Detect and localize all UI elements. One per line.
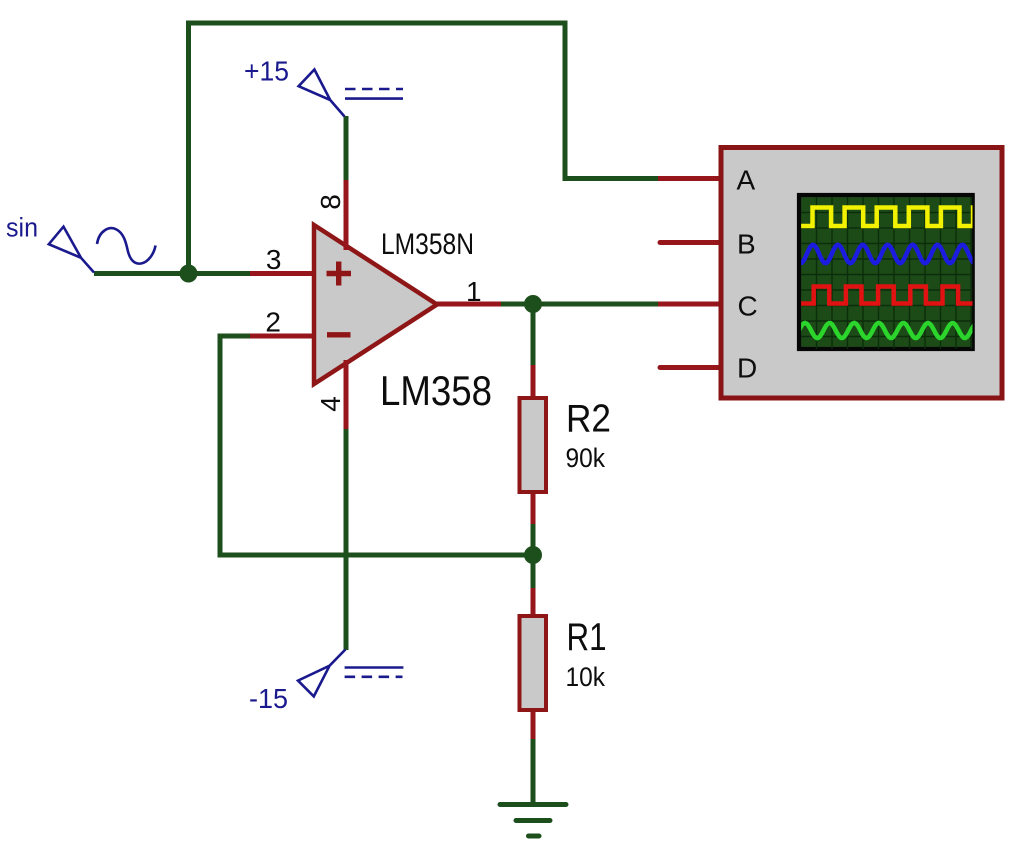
-15 rail solid line (345, 666, 404, 669)
resistor R2 body (520, 398, 547, 492)
op-amp plus input marker (327, 262, 352, 286)
svg-text:R2: R2 (566, 398, 611, 441)
wire: R2-R1 junction segment (531, 524, 536, 588)
op-amp minus input marker (327, 332, 351, 337)
pin 3 of U1 (red pin stub) (250, 271, 315, 276)
oscilloscope body (721, 148, 1002, 399)
wire: sin source to pin 3 (green part) (94, 271, 250, 276)
resistor R1 body (520, 616, 547, 710)
svg-text:10k: 10k (566, 662, 606, 692)
+15 rail dashed line (345, 88, 403, 91)
wire: feedback/top net from input junction to scope pin A (189, 23, 659, 274)
svg-text:3: 3 (266, 244, 282, 275)
svg-text:D: D (737, 353, 757, 384)
wire: pin 2 net down and across to R1/R2 junction (220, 336, 533, 555)
svg-text:LM358N: LM358N (381, 228, 474, 261)
svg-text:A: A (737, 165, 756, 196)
wire: output junction down toward R2 (531, 304, 536, 365)
scope pin B stub (red, unconnected) (660, 240, 721, 245)
node: output junction dot (524, 295, 542, 313)
svg-text:90k: 90k (566, 443, 606, 473)
R1 bottom pin (red) (531, 710, 536, 739)
oscilloscope screen frame (799, 195, 973, 349)
svg-text:sin: sin (6, 213, 38, 243)
trace B: blue sine wave (796, 245, 976, 263)
pin 2 of U1 (red pin stub) (250, 334, 315, 339)
R1 top pin (red) (531, 588, 536, 616)
pin 8 of U1 (red V+ pin) (344, 180, 349, 250)
svg-text:R1: R1 (567, 616, 607, 659)
svg-text:-15: -15 (249, 683, 288, 714)
svg-text:+15: +15 (244, 56, 289, 87)
+15 rail solid line (345, 97, 403, 100)
scope pin D stub (red, unconnected) (660, 365, 721, 370)
svg-text:B: B (737, 229, 756, 260)
trace D: green sine wave (796, 323, 976, 338)
svg-text:C: C (738, 291, 758, 322)
svg-text:2: 2 (265, 307, 281, 338)
svg-text:1: 1 (466, 276, 482, 307)
sin input terminal symbol (49, 227, 94, 273)
wire: +15 terminal down to pin 8 (344, 116, 349, 180)
ground symbol (500, 805, 566, 837)
sin wave squiggle (97, 228, 156, 263)
svg-text:LM358: LM358 (380, 367, 492, 414)
wire: pin 4 down to -15 terminal (344, 429, 349, 650)
node: input junction dot (180, 265, 198, 283)
-15 rail dashed line (345, 675, 403, 678)
trace A: yellow square wave (796, 208, 992, 227)
svg-text:8: 8 (315, 194, 346, 210)
pin 1 output of U1 (red pin stub) (437, 302, 501, 307)
power terminal +15 symbol (299, 70, 345, 117)
wire: output node to scope pin C (501, 302, 658, 307)
pin 4 of U1 (red V- pin) (344, 360, 349, 429)
R2 top pin (red) (531, 365, 536, 399)
svg-text:4: 4 (315, 396, 346, 412)
node: R1/R2 junction dot (524, 546, 542, 564)
power terminal -15 symbol (298, 650, 345, 697)
wire: R1 bottom to ground (531, 739, 536, 805)
op-amp U1 LM358N triangle body (314, 225, 437, 384)
R2 bottom pin (red) (531, 492, 536, 524)
oscilloscope screen grid (801, 197, 972, 349)
scope pin A stub (red) (658, 176, 721, 181)
scope pin C stub (red) (658, 302, 721, 307)
trace C: red square wave (796, 287, 990, 304)
